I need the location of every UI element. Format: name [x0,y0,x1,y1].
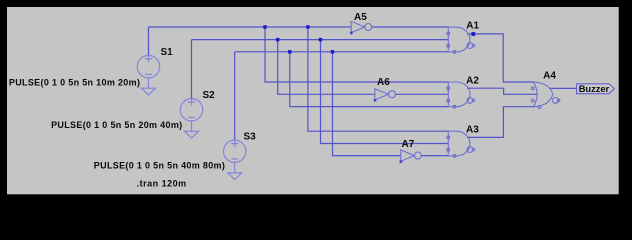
inverter A6 [374,89,396,102]
junction on bus1 at A2 drop [263,25,267,29]
voltage source S2 [180,99,202,121]
wire bus1 drop to A2 input 1 [265,27,448,82]
wire A2 output to A4 input 3 [467,88,538,94]
svg-text:PULSE(0 1 0 5n 5n 20m 40m): PULSE(0 1 0 5n 5n 20m 40m) [51,120,182,130]
NOR gate A4 [531,82,559,109]
svg-text:A3: A3 [466,124,479,135]
voltage source S3 [224,140,246,162]
wire bus2 drop to A3 input 3 [321,40,449,144]
ground of S1 [142,78,156,95]
svg-text:PULSE(0 1 0 5n 5n 40m 80m): PULSE(0 1 0 5n 5n 40m 80m) [94,161,225,171]
wire A6 output to A2 input 3 [395,93,448,95]
svg-text:S3: S3 [244,131,257,142]
svg-text:A7: A7 [402,139,415,150]
wire bus2 drop to A6 input [278,40,375,95]
svg-text:Buzzer: Buzzer [579,84,610,94]
svg-text:A4: A4 [543,70,556,81]
wire S2 to bus2 [191,40,193,99]
ground of S2 [185,121,199,138]
ground of S3 [228,163,242,180]
NAND gate A2 [447,82,475,108]
junction on bus2 at A6 drop [276,38,280,42]
wire A4 output to Buzzer [549,87,577,89]
svg-text:S2: S2 [203,90,216,101]
schematic canvas [7,7,619,194]
wire bus2 S2 net [192,39,449,41]
wire A3 output to A4 input 5 [467,107,535,138]
svg-text:A6: A6 [377,77,390,88]
junction on bus3 at A2 drop [288,50,292,54]
inverter A5 [350,21,372,34]
wire A5 output to A1 input 1 [372,26,449,28]
wire bus3 drop to A7 input [333,52,401,156]
wire A1 output to A4 input 1 [467,34,535,82]
junction on bus2 at A3 drop [319,38,323,42]
wire bus1 S1 net [149,26,352,28]
svg-text:A2: A2 [466,75,479,86]
junction on bus3 at A7 drop [331,50,335,54]
NAND gate A3 [447,131,475,157]
node Buzzer flag [577,84,615,94]
svg-text:.tran 120m: .tran 120m [137,178,187,188]
inverter A7 [400,150,422,163]
voltage source S1 [137,55,159,77]
wire bus3 drop to A2 input 5 [290,52,449,107]
junction on bus1 at A3 drop [306,25,310,29]
wire bus1 drop to A3 input 1 [308,27,448,131]
wire S3 to bus3 [234,52,236,140]
svg-text:A1: A1 [466,20,479,31]
wire S1 to bus1 [148,27,150,55]
svg-text:A5: A5 [354,12,367,23]
wire bus3 S3 net [235,51,449,53]
wire A7 output to A3 input 5 [421,155,448,157]
NAND gate A1 [447,27,475,53]
svg-text:PULSE(0 1 0 5n 5n 10m 20m): PULSE(0 1 0 5n 5n 10m 20m) [9,78,140,88]
junction at A1 output [471,32,475,36]
svg-text:S1: S1 [161,47,174,58]
